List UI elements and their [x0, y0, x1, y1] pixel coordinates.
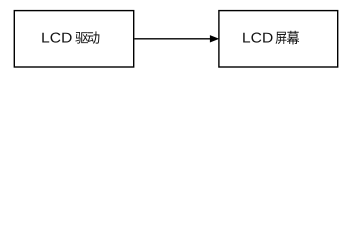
wire driver-to-screen	[134, 38, 211, 40]
block LCD-driver	[14, 11, 133, 67]
label "LCD 屏幕"	[243, 31, 299, 45]
block LCD-screen	[219, 11, 338, 67]
flow diagram: LCD driver -> LCD screen	[0, 0, 343, 79]
label "LCD 驱动"	[42, 31, 99, 43]
arrowhead at screen input	[210, 36, 218, 42]
